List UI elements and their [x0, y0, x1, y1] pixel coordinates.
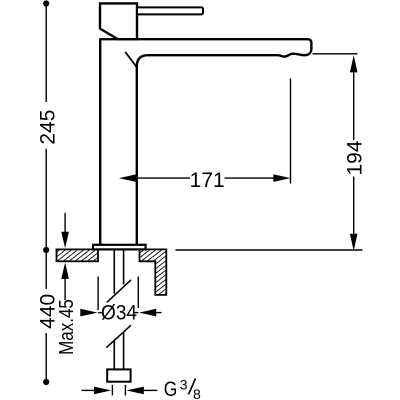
dim 194	[313, 53, 358, 55]
countertop right L-slab	[140, 249, 167, 295]
countertop surface extension line	[176, 249, 363, 251]
G3/8 connector box	[107, 369, 130, 381]
base flange	[93, 245, 146, 250]
spout chamfer edge line	[125, 52, 136, 67]
svg-text:8: 8	[193, 386, 201, 400]
svg-text:Max.45: Max.45	[55, 299, 78, 355]
countertop left slab	[57, 249, 99, 261]
dim G3/8 width	[81, 389, 94, 391]
dim 171	[119, 174, 136, 182]
break diagonal lower	[106, 325, 131, 348]
handle lever rod	[137, 7, 203, 14]
svg-text:G: G	[164, 377, 178, 400]
svg-text:194: 194	[344, 140, 367, 175]
dim Max.45	[64, 213, 66, 233]
svg-text:Ø34: Ø34	[101, 302, 137, 325]
dim 245/440 vertical line	[43, 0, 49, 6]
supply pipe lower segment	[113, 341, 115, 369]
handle cartridge box	[100, 3, 137, 39]
svg-text:3: 3	[180, 376, 188, 392]
faucet body outline	[100, 39, 311, 247]
svg-text:171: 171	[190, 169, 225, 192]
svg-text:245: 245	[36, 110, 59, 145]
break diagonal upper	[107, 280, 131, 303]
dim Ø34	[97, 276, 99, 310]
supply pipe upper segment	[113, 249, 115, 293]
